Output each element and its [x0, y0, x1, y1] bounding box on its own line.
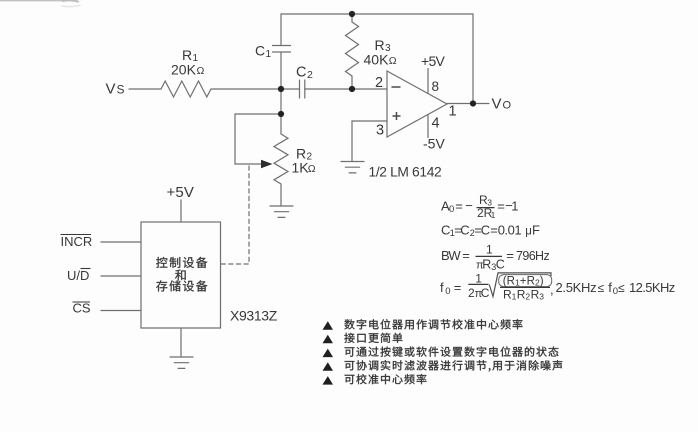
- formula BW = 1/(pi R3 C) = 796Hz: [441, 243, 549, 273]
- wiper arrowhead: [261, 160, 273, 169]
- X9313Z box text line 2: [175, 270, 186, 281]
- svg-text:1: 1: [475, 272, 482, 286]
- svg-text:+5V: +5V: [167, 184, 195, 201]
- capacitor C1 plates: [273, 46, 291, 53]
- svg-text:12.5KHz: 12.5KHz: [629, 280, 675, 295]
- svg-text:-5V: -5V: [423, 136, 445, 152]
- junction output node: [470, 100, 476, 106]
- svg-text:BW: BW: [441, 248, 461, 263]
- X9313Z box text line 3: [156, 280, 207, 291]
- svg-text:): ): [540, 276, 544, 288]
- svg-text:1: 1: [491, 210, 496, 220]
- ground op-amp pin3: [341, 162, 364, 173]
- resistor R3: [346, 22, 359, 76]
- potentiometer R2 top lead: [280, 114, 282, 134]
- bullet text 2: [344, 333, 402, 343]
- op-amp minus sign: [392, 86, 401, 88]
- svg-text:S: S: [117, 83, 125, 97]
- svg-text:1: 1: [486, 243, 493, 257]
- bullet text 5: [345, 374, 427, 384]
- svg-text:f: f: [440, 280, 444, 295]
- svg-text:2: 2: [375, 75, 383, 91]
- svg-text:μ: μ: [525, 226, 532, 238]
- svg-text:3: 3: [376, 123, 384, 139]
- bullet text 3: [345, 346, 559, 356]
- svg-text:0: 0: [445, 286, 450, 297]
- input U/D: [67, 268, 91, 283]
- svg-text:V: V: [106, 81, 116, 98]
- svg-text:R: R: [482, 258, 491, 272]
- svg-text:=: =: [506, 248, 514, 263]
- svg-text:40K: 40K: [364, 52, 390, 68]
- box ground lead: [180, 328, 182, 357]
- svg-text:V: V: [492, 96, 502, 113]
- svg-text:CS: CS: [73, 301, 91, 316]
- svg-text:O: O: [503, 100, 512, 112]
- svg-text:C: C: [460, 223, 469, 238]
- svg-text:R: R: [527, 276, 535, 288]
- wire pin 3: [352, 121, 387, 161]
- svg-text:20K: 20K: [171, 62, 197, 78]
- svg-text:796Hz: 796Hz: [516, 249, 549, 263]
- svg-text:C: C: [481, 223, 490, 238]
- junction node A: [278, 86, 284, 92]
- svg-text:1: 1: [511, 199, 518, 214]
- bullet marker 3: [323, 349, 334, 358]
- svg-text:R: R: [507, 276, 515, 288]
- svg-text:0: 0: [449, 204, 454, 215]
- svg-text:U/D: U/D: [67, 268, 89, 283]
- svg-text:=: =: [455, 199, 463, 214]
- svg-text:Ω: Ω: [197, 65, 205, 77]
- capacitor C1 top lead: [280, 14, 282, 46]
- svg-text:C: C: [496, 258, 505, 272]
- svg-text:C: C: [255, 43, 265, 59]
- formula f0 center frequency: [440, 272, 675, 302]
- svg-text:≤: ≤: [598, 281, 605, 295]
- junction node C: [278, 111, 284, 117]
- svg-text:4: 4: [432, 116, 440, 132]
- svg-text:Ω: Ω: [308, 163, 316, 175]
- svg-text:8: 8: [432, 79, 440, 94]
- wire U/D: [101, 275, 141, 277]
- wire R1 to node A: [211, 88, 299, 90]
- svg-text:0.01: 0.01: [498, 223, 522, 238]
- svg-text:f: f: [608, 280, 612, 295]
- pin 8 lead: [427, 69, 429, 94]
- wire INCR: [101, 241, 141, 243]
- scan artifact top edge: [0, 0, 80, 6]
- svg-text:X9313Z: X9313Z: [230, 308, 278, 324]
- bullet text 4: [345, 360, 563, 371]
- svg-text:Ω: Ω: [389, 55, 397, 67]
- svg-text:,: ,: [550, 282, 554, 297]
- wire node A down to node C: [280, 89, 282, 114]
- ground X9313Z: [170, 357, 193, 368]
- potentiometer R2 bottom lead: [280, 184, 282, 206]
- IC X9313Z box: [141, 222, 221, 328]
- svg-text:F: F: [532, 223, 540, 238]
- resistor R1: [161, 81, 211, 97]
- bullet text 1: [344, 319, 522, 329]
- svg-text:=: =: [497, 199, 505, 214]
- svg-text:1: 1: [266, 49, 272, 60]
- svg-text:≤: ≤: [618, 281, 625, 295]
- resistor R3 leads: [351, 14, 353, 22]
- svg-text:C: C: [296, 65, 306, 81]
- bullet marker 5: [323, 376, 334, 385]
- svg-text:1/2 LM 6142: 1/2 LM 6142: [369, 165, 442, 180]
- wire output node up: [472, 14, 474, 104]
- svg-text:=: =: [462, 248, 470, 263]
- svg-text:INCR: INCR: [61, 234, 93, 249]
- wire output: [447, 103, 489, 105]
- op-amp U1 triangle: [387, 71, 447, 137]
- dashed control link: [221, 166, 249, 264]
- pin 4 lead: [427, 115, 429, 138]
- input CS: [73, 301, 91, 316]
- op-amp plus sign: [393, 112, 401, 120]
- svg-text:2: 2: [307, 69, 313, 81]
- svg-text:1K: 1K: [292, 160, 310, 176]
- resistor R3 bottom lead: [351, 76, 353, 89]
- wire C2 to op-amp pin 2: [305, 88, 387, 90]
- formula A0 = -R3/2R1 = -1: [441, 193, 519, 220]
- junction top wire: [349, 11, 355, 17]
- input INCR: [61, 234, 93, 249]
- potentiometer R2: [274, 134, 288, 184]
- bullet marker 1: [323, 321, 334, 330]
- wire top feedback: [281, 13, 473, 15]
- svg-text:=: =: [454, 280, 462, 295]
- svg-text:−: −: [465, 198, 473, 213]
- svg-text:3: 3: [539, 292, 544, 302]
- ground R2: [270, 206, 293, 217]
- X9313Z box text line 1: [156, 257, 207, 268]
- bullet marker 2: [323, 335, 334, 344]
- wire VS to R1: [129, 88, 161, 90]
- bullet marker 4: [323, 362, 334, 371]
- +5V lead into box: [180, 200, 182, 222]
- junction node B (R3 bottom): [349, 86, 355, 92]
- svg-text:2.5KHz: 2.5KHz: [556, 280, 597, 295]
- capacitor C1 bottom lead: [280, 52, 282, 89]
- svg-text:+5V: +5V: [421, 53, 446, 69]
- svg-text:=: =: [490, 223, 498, 238]
- svg-text:1: 1: [449, 104, 457, 120]
- formula C1=C2=C=0.01uF: [441, 223, 540, 239]
- wire CS: [101, 310, 141, 312]
- capacitor C2 plates: [300, 80, 305, 98]
- wiper feedback wire: [235, 114, 281, 164]
- svg-text:C: C: [481, 286, 490, 300]
